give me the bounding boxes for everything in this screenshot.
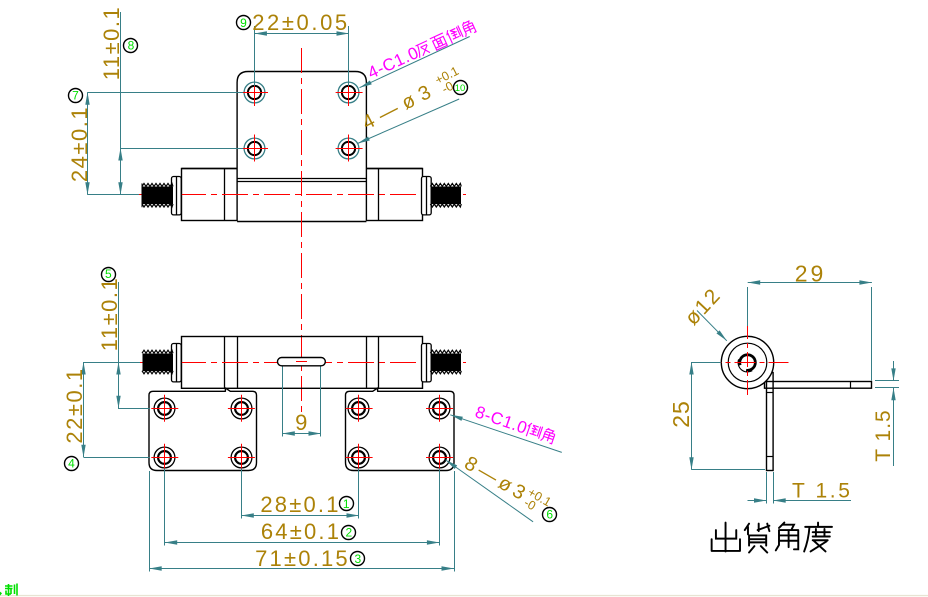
bottom view: right threaded stud [430,350,461,374]
dimension ø12: leader with arrow [697,311,727,341]
svg-text:22±0.05: 22±0.05 [252,10,350,35]
leader 4-ø3 (olive note, top): leader line with arrow [358,99,460,144]
top view: left threaded stud [142,183,173,207]
svg-text:T 1.5: T 1.5 [792,480,852,503]
svg-text:11±0.1: 11±0.1 [99,6,124,81]
title text 出货角度 (shipping angle) [712,523,832,553]
bottom view: left collar [172,343,182,382]
side view: vertical arm segment ticks [767,392,774,394]
dimension 11±0.1 (top view left): dimension line extended to text [120,12,122,195]
svg-text:10: 10 [455,83,466,94]
bottom view: damper cylinder body [182,337,423,389]
svg-text:2: 2 [345,525,352,539]
side view: vertical arm [767,373,774,471]
top view: right threaded stud [430,183,461,207]
side view: thread thin arc [738,359,752,372]
dimension 11±0.1 (bottom): extension line [118,408,150,410]
bottom view: slot in cylinder [278,358,326,366]
leader 8-C1.0 chamfer (magenta note, bottom): leader line with arrow [450,415,562,453]
bottom view: left threaded stud [142,350,173,374]
svg-text:24±0.1: 24±0.1 [67,106,92,182]
shared vertical centerline through both views [301,48,303,414]
dimension 9 (slot): extension lines [282,367,284,437]
balloon 4 [65,457,79,471]
note 4-C1.0 reverse-side chamfer (magenta, rotated) [365,18,478,83]
balloon 8 [124,39,138,53]
dimension 71±0.15: dimension line [149,568,454,570]
leader 8-ø3 (olive note, bottom): leader line with arrow [446,460,533,522]
dimension 11±0.1: extension line [121,148,243,150]
note 8-ø3 +0.1/-0 (olive, rotated) [460,451,554,520]
dimension 28±0.1: dimension line [241,515,359,517]
balloon 10 [454,81,468,95]
svg-text:8: 8 [128,39,135,53]
bottom view: 8 plate holes (counterbore + bore + red cross) [151,395,453,471]
side view: hub outer circle [721,336,773,388]
dimension 71±0.15: extension lines [149,471,151,572]
balloon 5 [102,267,116,281]
dimension 9: dimension line [282,433,321,435]
top view: damper cylinder body [182,169,423,221]
dimension 64±0.1: extension lines [164,469,166,546]
balloon 1 [340,497,354,512]
dimension T 1.5 (right): arrow segments [893,361,895,381]
svg-text:7: 7 [72,89,79,103]
svg-text:6: 6 [546,507,553,521]
bottom view: right mounting plate [346,388,455,471]
balloon 9 [237,16,251,31]
top view: plate hole top-left (teal chamfer + bore + center cross) [241,79,268,106]
side view: hub red centerlines [701,362,789,364]
dimension 25: dimension line [691,362,693,470]
title block separator line (bottom) [0,595,928,597]
dimension 28±0.1: extension lines [241,469,243,519]
bottom view: right collar [422,343,432,382]
top view: plate hole bottom-right [336,135,363,162]
svg-text:25: 25 [668,400,694,428]
dimension 22±0.1 (bottom view left): dimension line [83,362,85,457]
note 8-C1.0 chamfer (magenta, rotated) [473,402,557,447]
top view: horizontal centerline (red dash-dot) [138,194,466,196]
dimension 22±0.1: extension lines [84,362,140,364]
balloon 7 [69,89,83,103]
svg-text:71±0.15: 71±0.15 [255,546,350,571]
svg-text:1: 1 [343,497,350,511]
side view: horizontal arm segment tick [850,381,852,388]
side view: hub inner ring [728,343,767,382]
dimension 64±0.1: dimension line [165,542,440,544]
top view: plate/cylinder interface double line [237,178,366,180]
bottom view: end cap and plate-projection vertical lines [224,336,226,388]
svg-text:5: 5 [105,267,112,281]
top view: mounting plate outline [237,72,366,222]
dimension 22±0.05: dimension line with arrows [254,33,349,35]
top view: cylinder top edge segments beside plate [182,168,238,170]
dimension 29: dimension line [748,282,872,284]
note 4-ø3 +0.1/-0 (olive, rotated) [358,64,466,136]
svg-text:11±0.1: 11±0.1 [97,277,122,352]
svg-text:64±0.1: 64±0.1 [261,519,341,544]
svg-text:4: 4 [68,457,75,471]
dimension T 1.5 (bottom, vertical arm thickness): extension lines [766,472,768,504]
top view: plate hole top-right [336,79,363,106]
dimension 25: extension lines [691,362,721,364]
balloon 2 [342,525,356,539]
dimension 22±0.05 (top): extension lines [254,26,256,86]
dimension T 1.5 (bottom): arrow segments [748,500,767,502]
side view: horizontal arm [765,382,872,389]
title block green text fragment (bottom-left) [0,584,17,597]
leader 4-C1.0 (magenta note, top): leader line with arrow [360,37,470,88]
top view: cylinder bottom edge re-stroke under plate [237,221,366,223]
balloon 3 [351,552,365,567]
svg-text:28±0.1: 28±0.1 [260,492,340,517]
svg-text:9: 9 [240,16,247,30]
dimension 29: extension lines [747,287,749,326]
top view: right collar [422,176,432,215]
svg-text:3: 3 [355,552,362,566]
bottom view: left mounting plate [149,388,257,471]
dimension 24±0.1 (top view left): dimension line [87,92,89,195]
dimension 24±0.1: extension lines [88,92,244,94]
bottom view: red dash inside slot [296,361,307,363]
balloon 6 [543,507,557,521]
side view: shaft bore (thick arc) [740,355,756,371]
svg-text:22±0.1: 22±0.1 [62,367,87,443]
top view: right end cap vertical line [378,169,380,221]
top view: left end cap vertical line [224,169,226,221]
dimension 11±0.1 (bottom view left): dimension line [118,282,120,408]
svg-text:T 1.5: T 1.5 [872,409,895,461]
top view: plate hole bottom-left [241,135,268,162]
svg-text:29: 29 [795,261,827,287]
svg-text:9: 9 [295,410,307,435]
dimension T 1.5 (right, horizontal arm thickness): extension lines [875,380,899,382]
top view: left collar [172,176,182,215]
bottom view: horizontal centerline [138,362,466,364]
